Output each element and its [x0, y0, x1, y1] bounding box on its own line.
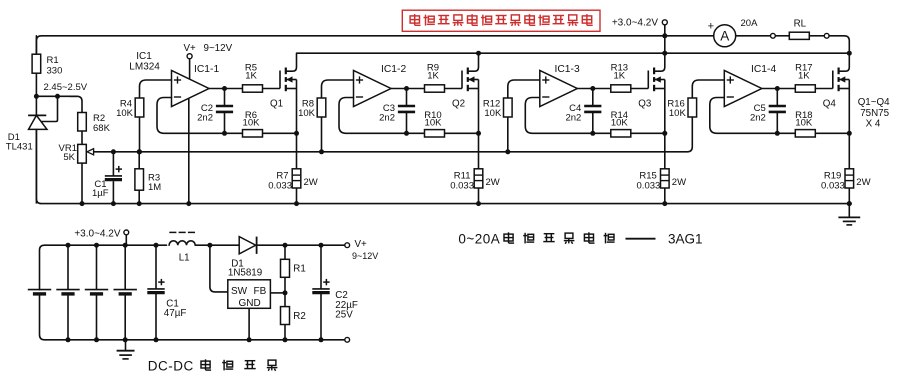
svg-text:10K: 10K: [669, 108, 687, 119]
svg-text:IC1-4: IC1-4: [751, 64, 776, 75]
svg-text:A: A: [720, 29, 729, 44]
svg-text:IC1-3: IC1-3: [555, 64, 580, 75]
svg-text:9~12V: 9~12V: [204, 43, 233, 54]
svg-text:IC1: IC1: [136, 51, 152, 62]
svg-text:2W: 2W: [856, 177, 870, 188]
svg-text:0~20A: 0~20A: [458, 232, 500, 247]
svg-text:X 4: X 4: [866, 118, 881, 129]
svg-text:3AG1: 3AG1: [668, 232, 703, 247]
svg-text:2W: 2W: [672, 177, 686, 188]
svg-text:FB: FB: [254, 286, 267, 297]
svg-text:2W: 2W: [304, 177, 318, 188]
svg-text:20A: 20A: [741, 18, 759, 29]
svg-text:0.033: 0.033: [821, 180, 845, 191]
svg-text:47µF: 47µF: [164, 308, 187, 319]
svg-text:Q2: Q2: [452, 99, 465, 110]
svg-text:R1: R1: [293, 264, 306, 275]
svg-text:10K: 10K: [298, 108, 316, 119]
svg-text:Q1~Q4: Q1~Q4: [858, 97, 890, 108]
svg-text:1K: 1K: [798, 70, 810, 81]
svg-text:1µF: 1µF: [92, 188, 109, 199]
svg-text:V+: V+: [355, 239, 368, 250]
svg-text:TL431: TL431: [6, 142, 33, 153]
svg-text:10K: 10K: [116, 108, 134, 119]
svg-text:1K: 1K: [427, 70, 439, 81]
svg-text:0.033: 0.033: [268, 180, 292, 191]
svg-text:2n2: 2n2: [565, 112, 581, 123]
svg-text:68K: 68K: [93, 123, 111, 134]
svg-text:2.45~2.5V: 2.45~2.5V: [44, 82, 88, 93]
svg-text:330: 330: [47, 66, 63, 77]
svg-text:SW: SW: [231, 286, 248, 297]
svg-text:Q3: Q3: [638, 99, 652, 110]
svg-text:LM324: LM324: [129, 62, 160, 73]
svg-text:2n2: 2n2: [379, 112, 395, 123]
svg-text:9~12V: 9~12V: [352, 251, 378, 261]
svg-text:25V: 25V: [335, 310, 353, 321]
svg-text:Q1: Q1: [270, 99, 283, 110]
svg-text:IC1-2: IC1-2: [381, 64, 406, 75]
svg-text:1K: 1K: [245, 70, 257, 81]
svg-text:V+: V+: [184, 43, 197, 54]
svg-text:0.033: 0.033: [637, 180, 661, 191]
svg-text:10K: 10K: [611, 118, 629, 129]
svg-text:R2: R2: [293, 311, 306, 322]
svg-text:+3.0~4.2V: +3.0~4.2V: [612, 17, 658, 28]
svg-text:10K: 10K: [795, 118, 813, 129]
svg-text:10K: 10K: [484, 108, 502, 119]
svg-text:L1: L1: [179, 253, 190, 264]
svg-text:0.033: 0.033: [450, 180, 474, 191]
svg-text:Q4: Q4: [823, 99, 837, 110]
svg-text:1N5819: 1N5819: [228, 268, 262, 279]
svg-text:IC1-1: IC1-1: [194, 64, 219, 75]
svg-text:5K: 5K: [63, 152, 75, 163]
svg-text:DC-DC: DC-DC: [148, 359, 194, 374]
svg-text:10K: 10K: [243, 118, 261, 129]
svg-text:RL: RL: [794, 18, 807, 29]
svg-text:2W: 2W: [486, 177, 500, 188]
svg-text:GND: GND: [239, 298, 261, 309]
svg-text:1K: 1K: [613, 70, 625, 81]
svg-text:+: +: [708, 21, 714, 33]
svg-text:2n2: 2n2: [197, 112, 213, 123]
svg-text:+3.0~4.2V: +3.0~4.2V: [74, 228, 120, 239]
svg-text:10K: 10K: [425, 118, 443, 129]
svg-text:2n2: 2n2: [750, 112, 766, 123]
svg-text:1M: 1M: [148, 182, 161, 193]
